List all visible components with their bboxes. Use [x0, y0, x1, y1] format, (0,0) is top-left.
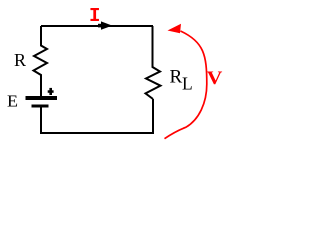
svg-text:L: L	[182, 74, 193, 94]
svg-text:I: I	[89, 5, 100, 27]
svg-text:R: R	[170, 67, 183, 88]
svg-text:R: R	[14, 50, 26, 70]
svg-text:V: V	[207, 68, 223, 89]
svg-text:E: E	[7, 92, 18, 111]
